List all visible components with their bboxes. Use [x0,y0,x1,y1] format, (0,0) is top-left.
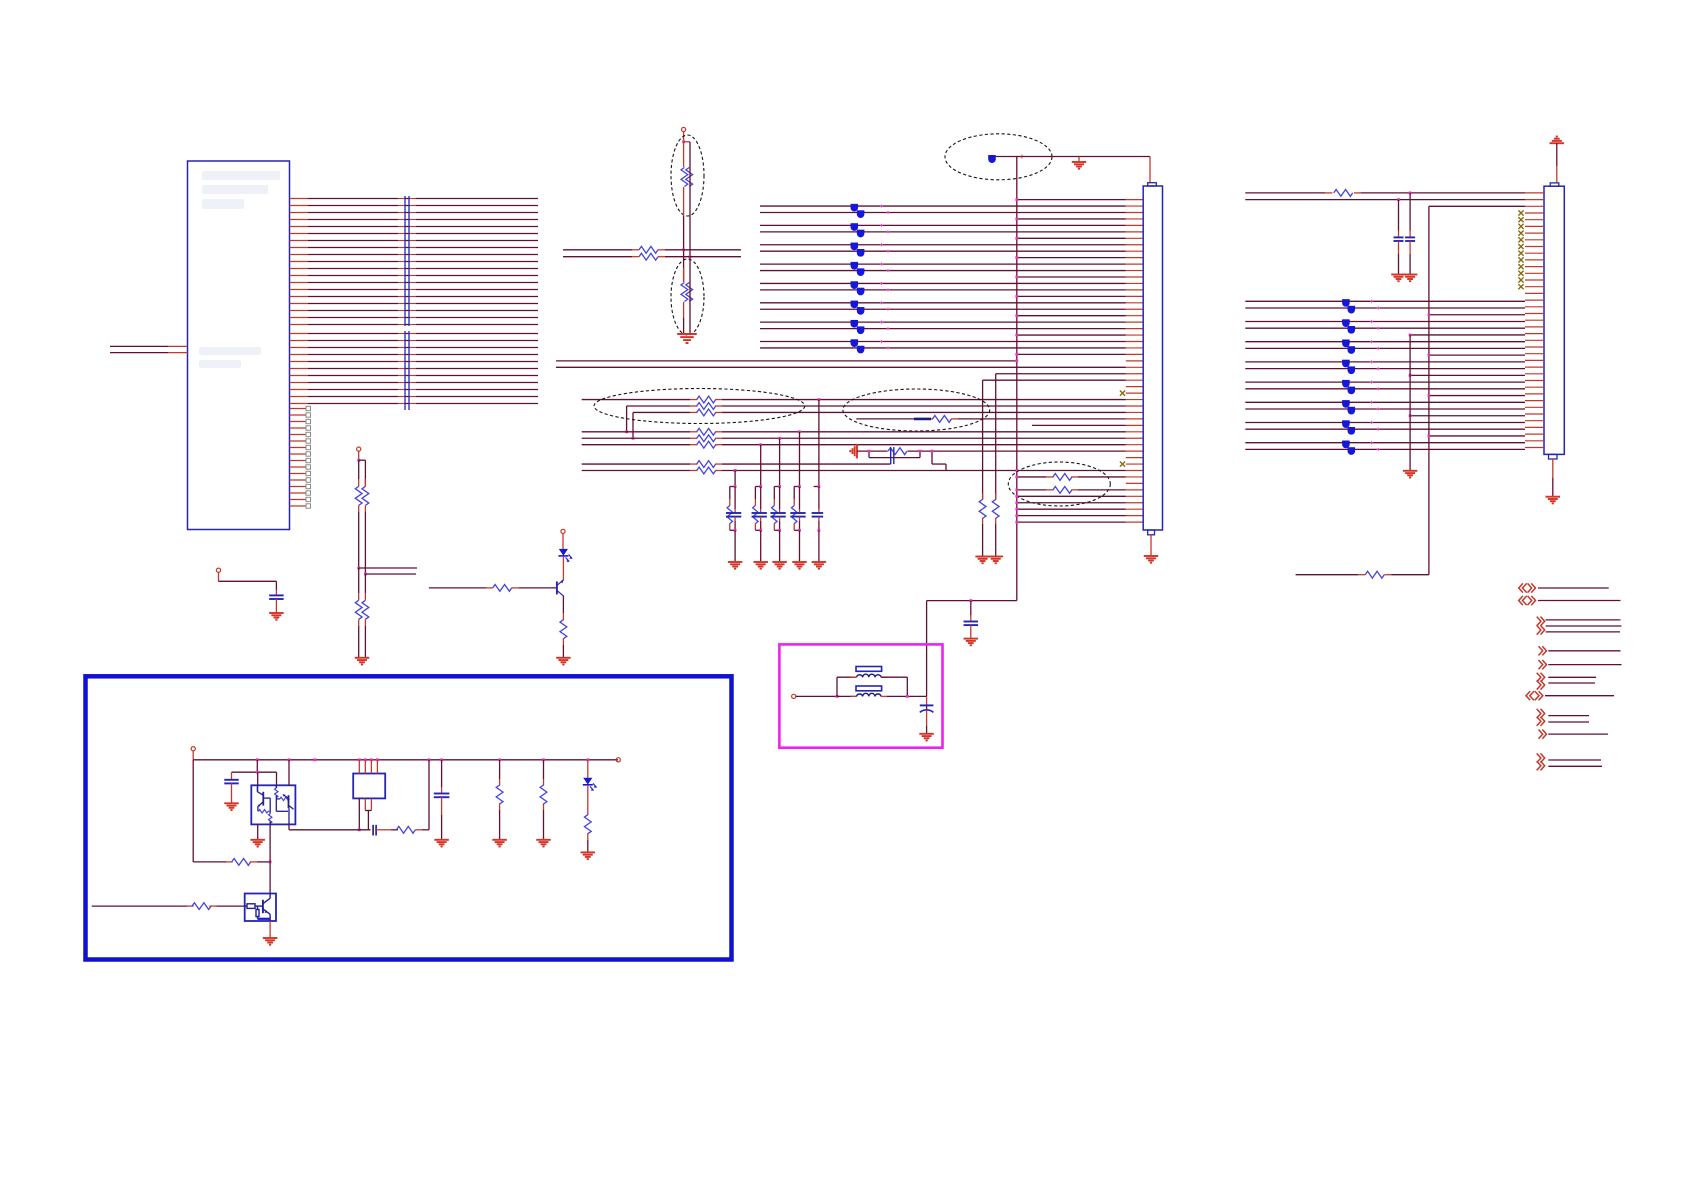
wire J1 bottom to ground [1150,535,1152,556]
filter FL1 lower branch [837,686,927,698]
port arrow PA5 [1539,660,1622,669]
wire left branch + resistor RI1 [193,760,271,866]
IC U1 faint silkscreen text [199,171,280,368]
pin P6 (rail right) [616,758,620,762]
wire r31 + resistor RD1 [582,396,1126,403]
port arrows PA2 [1519,596,1621,605]
LED D1 [558,549,572,562]
resistor RQ1 (base) [429,585,557,592]
wire feedback path [289,829,371,831]
connector J1 pin stubs [1126,200,1143,522]
capacitor CI1 branch [224,760,276,804]
resistor RQ2 [560,620,567,639]
ground RC1 [988,557,1003,564]
wire RQ2 to ground [562,638,564,658]
ellipse highlight E4 [843,389,990,431]
capacitor CJ2 [1394,198,1404,274]
no-connect X r30 [1120,391,1125,396]
ground D2 [581,852,596,859]
wire J2 r1 + resistor RJ1 [1245,190,1525,197]
ground CP1 [269,613,284,620]
wire IC left pin pair [110,346,188,352]
resistor RI2 [396,826,429,833]
wire r34 ferrite bead FB1 + resistor RE1 [856,416,1126,423]
resistor RA2 (in E2) [681,250,693,334]
wire r35 short [1032,424,1126,426]
optocoupler U2 pins [258,760,289,894]
wires verticals to J2 (interleaved) [1409,313,1525,437]
ground at top feed [1072,157,1087,169]
interface box outline [86,676,732,959]
transformer T1 bottom pins [358,798,372,831]
wire r41 + resistor RD7 [582,461,891,468]
capacitor branch 5 (C to ground) [812,398,827,569]
net dot (blue) in E3 [988,155,996,163]
pin P7 [792,694,796,698]
vertical bus VB1 [1016,157,1018,601]
pin P1 top of divider [682,127,686,141]
port arrows PA10 (2-wire group) [1537,753,1602,770]
wire r37 + resistor RD5 [582,435,1126,442]
pin P3 [357,447,361,460]
resistor RI4 [540,760,547,840]
wire input + resistor RI6 [92,903,245,910]
pin P4 [216,568,220,581]
ground J2 [1546,497,1561,504]
wire J2 bottom to ground [1552,459,1554,497]
ground Q2 [263,938,278,945]
transformer T1 top pins [359,760,377,774]
ground CJ1 [1403,275,1418,282]
wire P4 to cap [219,581,277,595]
ground RI3 [492,840,507,847]
right bundle pair wires with net dots [1245,299,1525,455]
wire E3 to connector J1 top [996,155,1150,184]
optocoupler U2 internals [257,785,293,824]
pin P2 [561,529,565,549]
rail junction dots [256,758,589,761]
vertical blue bus pair [405,196,409,410]
vertical VB3 + ground [1403,335,1418,478]
wire CP1 to ground [275,599,277,613]
port arrow PA4 [1539,646,1621,655]
transistor Q2 internals [245,894,270,922]
power rail [193,759,618,761]
port arrows PA7 [1526,691,1614,700]
wire Q1 emitter [562,596,564,621]
wire r38 + resistor RD6 [582,441,1126,448]
resistor RA1 (in E1) [681,142,693,257]
ground CJ2 [1391,275,1406,282]
ground RC2 [975,557,990,564]
wire J1 r27 + resistor RC1 to ground [992,374,1126,557]
RC branch 1 (R+C to ground) [726,469,742,569]
wire pair H1 with resistors RB1 RB2 [563,246,741,260]
resistor RI5 [584,815,591,853]
crystal box outline [779,644,942,747]
capacitor CX1 (polarized) to ground [920,696,934,733]
ellipse highlight E2 [671,259,704,335]
port arrows PA8 (2-wire group) [1537,709,1589,726]
wire r32 + resistor RD2 (jog from r36) [625,403,1126,434]
resistor RI3 [496,760,503,840]
wire VB1 bottom run [927,599,1017,696]
wire r33 + resistor RD3 (jog from r37) [632,409,1126,440]
capacitor CB1 to ground [964,601,979,639]
wire r43 + resistor RG1 [1015,474,1125,481]
IC U1 body [188,161,290,530]
port arrow PA9 [1539,730,1609,739]
wire J2 r2 [1245,199,1525,201]
port arrows PA1 [1519,583,1609,592]
wire pair from x556 to J1 [556,359,1126,367]
ground CI1 [224,803,239,810]
wire RI2 up to rail [428,760,430,830]
RC branch 3 (R+C to ground) [770,437,786,569]
ellipse highlight E1 [671,135,704,216]
capacitor CJ1 [1405,192,1415,275]
wire J1 r28 + resistor RC2 to ground [979,380,1126,556]
ground (left) G5 [850,444,857,459]
pin P5 (rail left) [191,747,195,760]
ground CX1 [919,734,934,741]
junction dot divider top [682,140,685,143]
ground CI3 [434,840,449,847]
ellipse highlight E5 [1008,462,1110,506]
ground divider2 [355,658,370,665]
wire divider jog [684,141,690,143]
no-connect X marks J2 [1518,210,1523,289]
wire VB2 bottom + resistor RJ2 [1296,571,1429,578]
ellipse highlight E4a [594,389,805,424]
ground divider [677,334,697,343]
wires bus VB1 to J1 (upper) [1015,198,1125,356]
ground U2 [250,840,265,847]
ellipse highlight E3 [945,134,1052,180]
wire divider2 top jog [357,459,365,487]
wires bus VB1 to J1 (lower) [1015,495,1125,524]
ground Q1 [556,658,571,665]
wire r42 + resistor RD8 [582,467,1126,474]
RC branch 4 (R+C to ground) [790,430,806,568]
capacitor CI3 (electrolytic) [434,760,450,840]
ground CB1 [964,639,979,646]
ground J1 [1144,556,1159,563]
wire r36 + resistor RD4 [582,428,1126,435]
power symbol VCC2 [1550,137,1565,183]
junction dots divider [682,248,691,258]
connector J2 pin stubs [1525,193,1544,448]
transformer T1 body [353,774,385,799]
resistor RH1 pair [355,460,368,574]
connector J2 body [1544,183,1564,459]
optocoupler U2 body [251,785,295,824]
IC U1 right pin wires to bus [290,199,539,404]
bundle pair wires with net dots [760,204,1126,354]
wire Q2 emitter to ground [269,921,271,938]
filter FL1 upper branch [837,667,907,697]
transistor Q1 [557,580,564,596]
resistor RH2 pair [355,568,368,658]
port arrows PA3 (3-wire group) [1537,617,1622,635]
port arrows PA6 (2-wire group) [1537,673,1596,690]
wire r39 with resistor RF1 and cap CF1 loop [857,447,1126,470]
capacitor CP1 [269,595,284,599]
IC U1 no-connect pins [290,406,311,508]
capacitor CI2 (series) [373,825,398,836]
wire P7 to filter [796,695,839,698]
wire divider2 taps [357,567,417,576]
RC branch 2 (R+C to ground) [752,443,768,568]
ground RI4 [536,840,551,847]
connector J1 body [1143,183,1162,535]
wire r45 + resistor RG2 [1015,486,1125,493]
no-connect X r41 [1120,461,1125,466]
wire D1 to Q1 [562,556,564,581]
LED D2 [583,760,597,815]
wire J2 r3 + vertical VB2 [1429,206,1525,574]
transistor box Q2 body [245,894,276,922]
